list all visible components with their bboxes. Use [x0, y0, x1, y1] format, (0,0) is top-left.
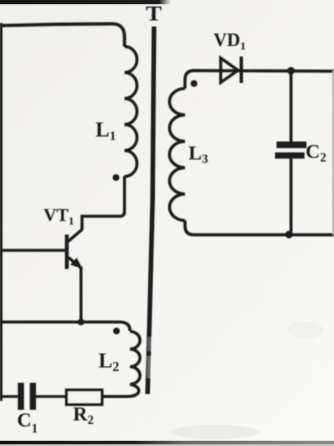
label C1 — [17, 410, 38, 436]
core fade patch — [147, 337, 154, 378]
diode VD1 triangle — [221, 58, 238, 83]
label R2 — [73, 404, 94, 428]
label L2 — [99, 349, 120, 375]
polarity dot of L2 — [113, 328, 120, 335]
label L3 — [189, 143, 209, 167]
wire: lower horizontal wire into L2 top — [0, 322, 130, 331]
wire: left rail (cropped at left edge) — [0, 23, 3, 401]
scan artifact: top edge black bar — [0, 0, 171, 4]
wire: R2 to C1 — [36, 395, 67, 398]
transformer T core — [148, 27, 154, 395]
inductor L2 (feedback winding) — [130, 332, 140, 385]
wire: node down to C2 — [290, 71, 293, 142]
label C2 — [306, 141, 327, 165]
inductor L1 (primary winding) — [125, 47, 138, 177]
transistor VT1 emitter with arrow — [69, 258, 83, 269]
wire: faint right rail — [332, 71, 334, 235]
scan artifact: faint smudge near bottom edge — [170, 321, 323, 439]
wire: top supply wire to L1 — [0, 24, 125, 47]
capacitor C2 — [275, 142, 307, 159]
junction: emitter / L2 node — [78, 319, 85, 326]
wire: base wire from left — [0, 249, 66, 252]
resistor R2 — [67, 390, 103, 405]
scan artifact: bottom edge dark line — [0, 441, 334, 445]
label VD1 — [214, 31, 246, 53]
wire: C1 to left edge — [0, 395, 18, 398]
wire: L2 bottom to R2 — [102, 384, 139, 396]
diode VD1 cathode bar — [240, 57, 243, 84]
wire: L3 bottom to output rail — [185, 221, 334, 235]
polarity dot of L3 — [191, 80, 198, 87]
capacitor C1 — [18, 383, 36, 410]
label L1 — [96, 118, 117, 144]
inductor L3 (secondary winding) — [170, 89, 186, 221]
wire: C2 down to bottom rail — [290, 159, 293, 235]
label T (transformer) — [146, 2, 162, 26]
wire: secondary top wire with corner from L3 — [185, 71, 334, 89]
label VT1 — [44, 205, 75, 228]
wire: emitter down to lower rail — [80, 267, 83, 322]
transistor VT1 base bar — [65, 235, 69, 270]
wire: L1 bottom to collector — [82, 176, 125, 230]
junction: diode output node — [287, 67, 295, 75]
transistor VT1 collector stroke — [68, 230, 82, 242]
svg-text:T: T — [146, 2, 162, 26]
junction: C2 bottom node — [285, 231, 293, 239]
polarity dot of L1 — [113, 174, 120, 181]
